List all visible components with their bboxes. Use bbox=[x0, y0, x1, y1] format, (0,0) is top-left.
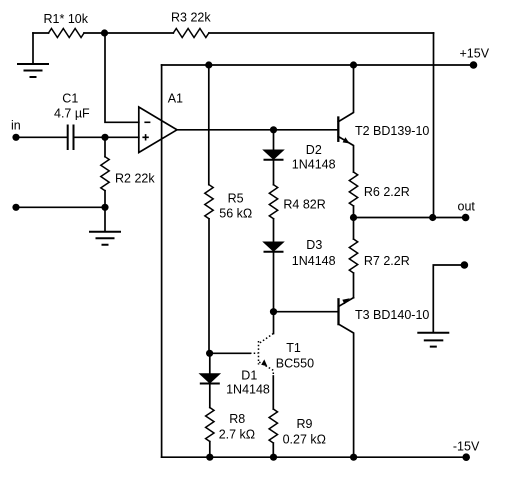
wire out rail bbox=[354, 217, 466, 219]
node junction R9 bottom bbox=[270, 454, 277, 461]
wire in to C1 bbox=[16, 136, 67, 138]
svg-text:R6 2.2R: R6 2.2R bbox=[364, 185, 410, 199]
svg-text:out: out bbox=[458, 200, 476, 214]
node junction C1/R2/+input bbox=[101, 134, 108, 141]
node junction T3 collector bottom bbox=[350, 454, 357, 461]
svg-text:2.7 kΩ: 2.7 kΩ bbox=[219, 428, 255, 442]
svg-text:R2 22k: R2 22k bbox=[115, 172, 155, 186]
wire R4 to D3 bbox=[273, 219, 275, 242]
resistor R1 bbox=[44, 12, 89, 37]
svg-text:D3: D3 bbox=[306, 238, 322, 252]
svg-text:R5: R5 bbox=[228, 192, 244, 206]
resistor R4 bbox=[269, 185, 325, 219]
resistor R8 bbox=[206, 384, 256, 458]
node return terminal bbox=[461, 261, 469, 269]
wire -15V bottom rail bbox=[162, 456, 467, 458]
ground (below R2) bbox=[89, 207, 121, 244]
node -15V terminal bbox=[453, 439, 480, 461]
transistor T2 bbox=[338, 65, 429, 172]
wire D3 to T3 base node bbox=[273, 252, 275, 312]
svg-text:D2: D2 bbox=[306, 143, 322, 157]
node in terminal bbox=[11, 119, 21, 141]
svg-text:4.7 µF: 4.7 µF bbox=[54, 106, 90, 120]
svg-text:R4 82R: R4 82R bbox=[283, 198, 325, 212]
ground (R1 left) bbox=[17, 33, 49, 77]
wire T3 base bbox=[274, 311, 339, 313]
node junction output/D2 bbox=[270, 126, 277, 133]
ground (output return) bbox=[417, 333, 449, 347]
wire lower-left input return bbox=[16, 206, 105, 208]
diode D2 bbox=[264, 143, 336, 171]
wire top rail right of R1 bbox=[84, 32, 173, 34]
svg-text:R9: R9 bbox=[297, 417, 313, 431]
wire top rail to right corner bbox=[209, 32, 434, 34]
diode D3 bbox=[264, 238, 336, 268]
resistor R5 bbox=[205, 65, 252, 353]
op-amp A1 bbox=[139, 92, 183, 153]
wire D2 to R4 bbox=[273, 160, 275, 185]
wire A1 output to T2 base bbox=[177, 129, 338, 131]
wire inverting input from top node bbox=[105, 33, 139, 122]
resistor R2 bbox=[101, 137, 156, 207]
transistor T3 bbox=[339, 298, 430, 458]
transistor T1 bbox=[210, 312, 314, 409]
node out terminal bbox=[458, 200, 476, 222]
svg-text:R1* 10k: R1* 10k bbox=[44, 12, 89, 26]
resistor R7 bbox=[349, 218, 409, 298]
wire return to ground bbox=[433, 265, 464, 332]
node junction feedback/out bbox=[429, 214, 436, 221]
wire feedback drop to out node bbox=[433, 33, 435, 218]
wire +15V rail bbox=[162, 64, 474, 66]
svg-text:T2 BD139-10: T2 BD139-10 bbox=[355, 124, 429, 138]
wire C1 to non-inverting input bbox=[74, 136, 139, 138]
svg-text:1N4148: 1N4148 bbox=[226, 383, 270, 397]
node junction R2 bottom bbox=[101, 204, 108, 211]
node lower-left terminal bbox=[12, 204, 19, 211]
svg-text:R8: R8 bbox=[229, 412, 245, 426]
svg-text:1N4148: 1N4148 bbox=[292, 157, 336, 171]
svg-text:+15V: +15V bbox=[460, 47, 490, 61]
wire op-amp supply vertical bbox=[161, 65, 163, 457]
node junction R1/R3/inverting input bbox=[101, 29, 108, 36]
svg-text:T1: T1 bbox=[286, 341, 301, 355]
svg-text:R3 22k: R3 22k bbox=[171, 10, 211, 24]
node junction D3/T1 collector/T3 base bbox=[270, 308, 277, 315]
wire node to D1 bbox=[209, 353, 211, 374]
node +15V terminal bbox=[460, 47, 490, 69]
node junction R5 top bbox=[205, 61, 212, 68]
svg-text:BC550: BC550 bbox=[276, 357, 314, 371]
svg-text:R7 2.2R: R7 2.2R bbox=[364, 254, 410, 268]
resistor R9 bbox=[269, 409, 326, 457]
svg-text:-15V: -15V bbox=[453, 439, 480, 453]
capacitor C1 bbox=[54, 92, 90, 150]
svg-text:C1: C1 bbox=[62, 92, 78, 106]
resistor R6 bbox=[349, 172, 409, 218]
diode D1 bbox=[200, 369, 270, 397]
node junction T2 collector bbox=[350, 61, 357, 68]
node junction R5/D1/T1 base bbox=[206, 350, 213, 357]
svg-text:56 kΩ: 56 kΩ bbox=[219, 207, 252, 221]
wire output node to D2 bbox=[273, 130, 275, 150]
wire top rail left bbox=[33, 32, 49, 34]
node junction R8 bottom bbox=[206, 454, 213, 461]
svg-text:D1: D1 bbox=[241, 369, 257, 383]
node junction R6/R7 bbox=[350, 214, 357, 221]
svg-text:0.27 kΩ: 0.27 kΩ bbox=[283, 432, 326, 446]
svg-text:T3 BD140-10: T3 BD140-10 bbox=[355, 308, 429, 322]
svg-text:A1: A1 bbox=[168, 92, 183, 106]
resistor R3 bbox=[171, 10, 211, 37]
svg-text:1N4148: 1N4148 bbox=[292, 254, 336, 268]
svg-text:in: in bbox=[11, 119, 21, 133]
